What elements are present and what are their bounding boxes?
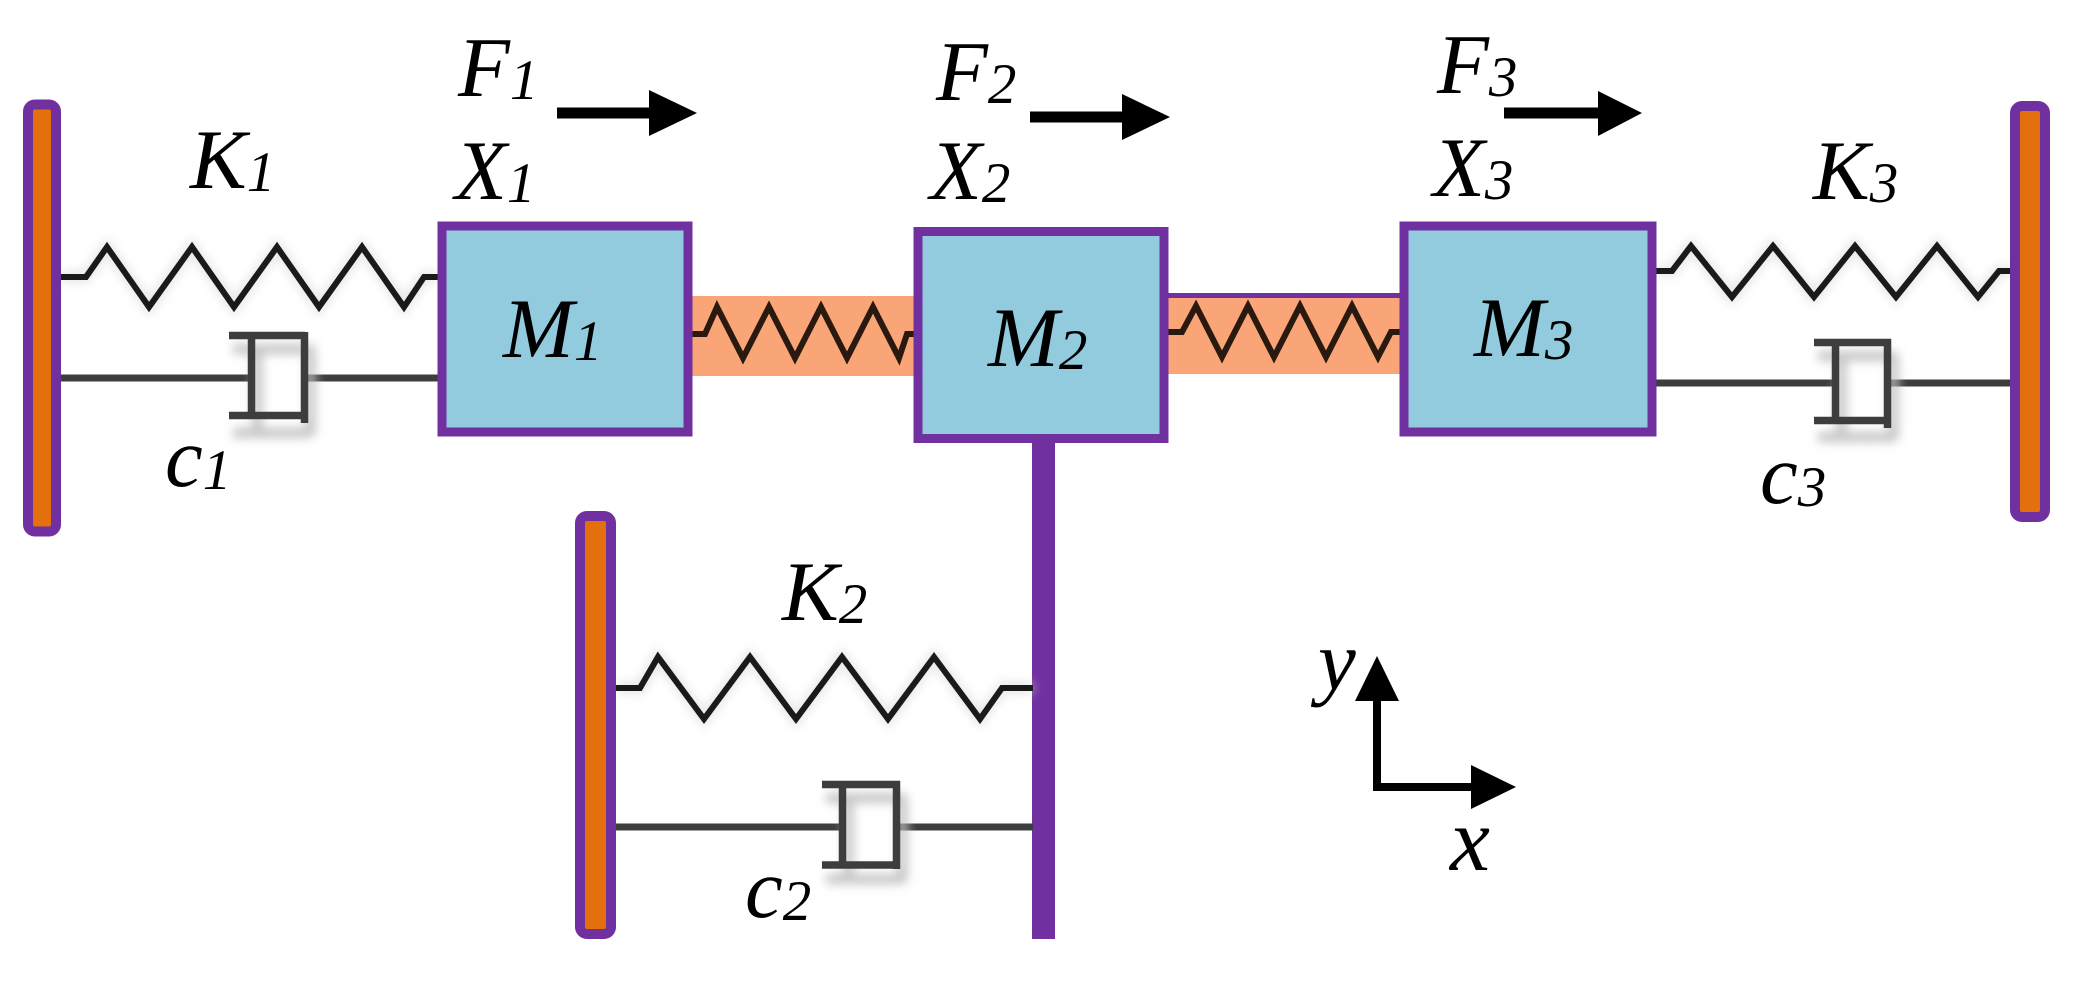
svg-text:X2: X2 xyxy=(927,124,1010,218)
damper c2 shadow xyxy=(826,795,903,882)
force arrow F2 xyxy=(1030,94,1170,140)
mass M3 xyxy=(1404,226,1652,432)
svg-text:x: x xyxy=(1448,791,1490,890)
damper rod c1 xyxy=(61,375,438,382)
mass M2 xyxy=(918,232,1164,439)
coupling band 2 between M2 and M3 xyxy=(1168,294,1400,374)
wire shadow under damper rod c3 xyxy=(1665,394,2005,408)
axis x arrow xyxy=(1373,765,1516,809)
damper c2 cylinder and piston xyxy=(822,781,900,869)
stem from M2 down xyxy=(1032,438,1055,939)
mass M1 xyxy=(442,226,688,432)
svg-text:c3: c3 xyxy=(1760,428,1826,522)
svg-text:K2: K2 xyxy=(781,545,867,639)
coupling spring in band 2 xyxy=(1168,306,1400,357)
svg-text:X3: X3 xyxy=(1430,121,1513,215)
spring K3 glow shadow xyxy=(1656,246,2011,297)
coupling band 1 between M1 and M2 xyxy=(692,296,914,376)
svg-text:F2: F2 xyxy=(935,25,1016,119)
svg-text:K1: K1 xyxy=(189,113,275,207)
coupling spring in band 1 xyxy=(692,307,914,358)
svg-text:X1: X1 xyxy=(452,124,535,218)
svg-text:F1: F1 xyxy=(457,21,538,115)
damper rod c3 xyxy=(1656,380,2011,387)
spring K2 glow shadow xyxy=(616,657,1033,719)
damper c1 shadow xyxy=(233,346,311,436)
force arrow F3 xyxy=(1504,91,1642,136)
svg-text:F3: F3 xyxy=(1436,18,1517,112)
wire shadow under damper rod c2 xyxy=(630,838,1025,852)
wire shadow under damper rod c1 xyxy=(75,389,430,403)
spring K1 glow shadow xyxy=(61,247,438,307)
spring K1 xyxy=(61,247,438,307)
spring K2 xyxy=(616,657,1033,719)
damper c1 cylinder and piston xyxy=(229,332,305,423)
wall lower (for K2) xyxy=(580,516,611,934)
svg-text:y: y xyxy=(1310,614,1356,708)
svg-text:c1: c1 xyxy=(165,411,231,505)
spring K3 xyxy=(1656,246,2011,297)
force arrow F1 xyxy=(557,90,697,136)
wall left xyxy=(28,105,56,532)
axis y arrow xyxy=(1355,656,1399,791)
damper c3 cylinder and piston xyxy=(1814,339,1891,428)
damper rod c2 xyxy=(616,824,1033,831)
svg-text:K3: K3 xyxy=(1812,124,1898,218)
purple top edge of band 2 xyxy=(1168,293,1400,298)
wall right xyxy=(2015,106,2045,517)
svg-text:c2: c2 xyxy=(745,842,811,936)
damper c3 shadow xyxy=(1818,353,1894,440)
